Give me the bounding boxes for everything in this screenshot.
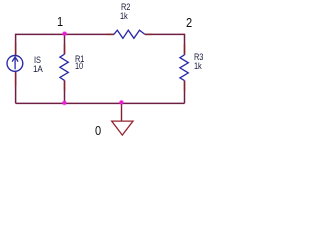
node label 0 [95,123,101,138]
label R1 value 10 [75,61,83,72]
node label 1 [57,14,63,29]
label R1 refdes [75,54,84,65]
wire right vertical lower (R3 to bottom rail) [184,81,186,104]
wire right vertical upper (node 2 to R3) [184,34,186,55]
resistor R1 zigzag body [60,54,68,80]
pin R1 bottom [64,80,66,91]
ground symbol stem [121,103,123,121]
label IS refdes [34,55,41,66]
node label 2 [186,15,192,30]
label R2 value 1k [120,11,128,22]
current source IS arrow head [12,57,18,62]
junction dot node 1 [62,31,67,36]
label R3 value 1k [194,61,202,72]
wire R1 vertical upper (node 1 dot to R1) [64,34,66,55]
current source IS arrow shaft [14,57,16,69]
pin R2 left [106,33,114,35]
pin IS bottom [15,72,17,86]
junction dot ground [119,100,124,105]
resistor R2 zigzag body [114,30,145,38]
resistor R3 zigzag body [180,55,188,81]
label IS value 1A [33,64,43,75]
pin R3 bottom [184,81,186,91]
wire bottom horizontal (ground net 0) [16,102,185,104]
wire top-right horizontal (node 2 net) [145,33,185,35]
wire R1 vertical lower (R1 to bottom rail) [64,80,66,103]
wire top-left horizontal (node 1 net) [16,33,114,35]
ground symbol triangle [112,121,133,135]
pin R1 top [64,44,66,54]
pin R2 right [145,33,153,35]
pin IS top [15,42,17,55]
pin R3 top [184,44,186,55]
wire left vertical lower (IS bottom to bottom rail) [15,72,17,104]
junction dot R1 bottom [62,100,67,105]
label R3 refdes [194,52,203,63]
label R2 refdes [121,2,130,13]
wire left vertical upper (corner to IS top) [15,34,17,56]
current source U: circle of IS [7,56,23,72]
